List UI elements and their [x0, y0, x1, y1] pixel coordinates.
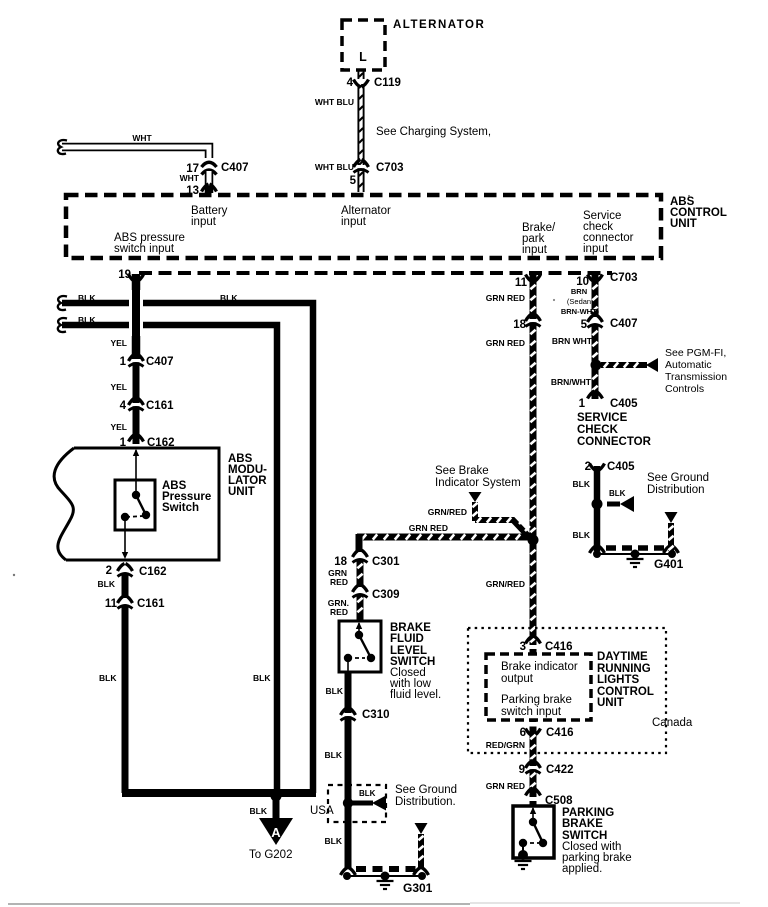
svg-text:BLK: BLK: [609, 489, 626, 498]
svg-text:A: A: [271, 825, 281, 840]
svg-text:1: 1: [579, 398, 586, 410]
svg-text:Brake indicator: Brake indicator: [501, 661, 578, 673]
svg-text:To G202: To G202: [249, 849, 292, 861]
svg-text:4: 4: [347, 77, 354, 89]
svg-text:switch input: switch input: [501, 706, 562, 718]
svg-text:See Ground: See Ground: [647, 472, 709, 484]
svg-text:Switch: Switch: [162, 502, 199, 514]
svg-text:Transmission: Transmission: [665, 371, 727, 383]
svg-text:CONNECTOR: CONNECTOR: [577, 436, 652, 448]
svg-text:2: 2: [585, 461, 591, 473]
svg-text:BLK: BLK: [78, 293, 96, 303]
svg-text:RED: RED: [330, 607, 348, 617]
svg-text:6: 6: [520, 727, 526, 739]
svg-text:BLK: BLK: [253, 673, 271, 683]
svg-text:(Sedan: (Sedan: [567, 297, 591, 306]
svg-text:11: 11: [515, 277, 528, 289]
svg-text:USA: USA: [310, 805, 334, 817]
svg-text:BLK: BLK: [220, 293, 238, 303]
svg-text:GRN RED: GRN RED: [486, 338, 525, 348]
svg-text:CHECK: CHECK: [577, 424, 619, 436]
svg-text:C119: C119: [374, 77, 401, 89]
svg-text:RED/GRN: RED/GRN: [486, 740, 525, 750]
svg-text:C703: C703: [376, 162, 404, 174]
svg-text:C301: C301: [372, 556, 400, 568]
svg-text:C161: C161: [146, 400, 174, 412]
svg-text:BLK: BLK: [573, 479, 591, 489]
svg-text:switch input: switch input: [114, 243, 175, 255]
svg-text:C161: C161: [137, 598, 165, 610]
svg-text:GRN/RED: GRN/RED: [428, 507, 467, 517]
svg-text:See Charging System,: See Charging System,: [376, 126, 491, 138]
svg-text:C407: C407: [610, 318, 638, 330]
svg-text:See Ground: See Ground: [395, 784, 457, 796]
svg-text:C162: C162: [139, 566, 167, 578]
svg-text:See PGM-FI,: See PGM-FI,: [665, 347, 726, 359]
svg-text:BLK: BLK: [325, 750, 343, 760]
svg-text:fluid level.: fluid level.: [390, 689, 441, 701]
svg-text:See Brake: See Brake: [435, 465, 489, 477]
svg-text:GRN RED: GRN RED: [409, 523, 448, 533]
svg-text:1: 1: [120, 356, 127, 368]
svg-text:GRN RED: GRN RED: [486, 293, 525, 303]
svg-text:UNIT: UNIT: [228, 486, 255, 498]
svg-text:Indicator System: Indicator System: [435, 477, 521, 489]
svg-text:3: 3: [520, 641, 526, 653]
svg-text:C309: C309: [372, 589, 400, 601]
svg-text:G401: G401: [654, 557, 684, 571]
svg-text:C422: C422: [546, 764, 574, 776]
svg-text:18: 18: [334, 556, 347, 568]
svg-text:YEL: YEL: [110, 422, 127, 432]
svg-text:L: L: [359, 50, 367, 64]
svg-text:BRN: BRN: [571, 287, 587, 296]
svg-text:output: output: [501, 673, 534, 685]
svg-text:WHT BLU: WHT BLU: [315, 97, 354, 107]
svg-text:WHT BLU: WHT BLU: [315, 162, 354, 172]
svg-text:WHT: WHT: [132, 133, 152, 143]
svg-text:18: 18: [513, 319, 526, 331]
svg-text:BLK: BLK: [98, 579, 116, 589]
svg-text:Distribution.: Distribution.: [395, 796, 456, 808]
svg-text:UNIT: UNIT: [670, 218, 697, 230]
svg-text:C310: C310: [362, 709, 390, 721]
svg-text:SERVICE: SERVICE: [577, 412, 628, 424]
svg-text:C407: C407: [146, 356, 174, 368]
svg-text:Canada: Canada: [652, 717, 693, 729]
svg-text:BRAKE: BRAKE: [562, 818, 603, 830]
svg-text:BLK: BLK: [250, 806, 268, 816]
svg-text:BRN WHT: BRN WHT: [552, 336, 593, 346]
svg-text:Distribution: Distribution: [647, 484, 705, 496]
svg-text:C405: C405: [607, 461, 635, 473]
svg-text:BRN/WHT: BRN/WHT: [551, 377, 592, 387]
svg-text:WHT: WHT: [180, 173, 200, 183]
svg-text:BLK: BLK: [573, 530, 591, 540]
svg-text:Automatic: Automatic: [665, 359, 712, 371]
svg-text:input: input: [583, 243, 609, 255]
svg-text:ALTERNATOR: ALTERNATOR: [393, 19, 485, 31]
svg-text:YEL: YEL: [110, 338, 127, 348]
svg-text:Parking brake: Parking brake: [501, 694, 572, 706]
svg-text:C416: C416: [545, 641, 573, 653]
svg-text:RED: RED: [330, 577, 348, 587]
svg-text:DAYTIME: DAYTIME: [597, 651, 648, 663]
svg-text:9: 9: [519, 764, 525, 776]
svg-text:11: 11: [105, 598, 118, 610]
svg-text:4: 4: [120, 400, 127, 412]
svg-text:applied.: applied.: [562, 863, 602, 875]
svg-text:5: 5: [581, 319, 588, 331]
svg-text:input: input: [341, 216, 367, 228]
svg-text:5: 5: [350, 175, 357, 187]
svg-text:GRN/RED: GRN/RED: [486, 579, 525, 589]
svg-text:UNIT: UNIT: [597, 697, 624, 709]
svg-text:BLK: BLK: [325, 836, 343, 846]
svg-text:input: input: [522, 244, 548, 256]
svg-text:C405: C405: [610, 398, 638, 410]
svg-text:LIGHTS: LIGHTS: [597, 674, 639, 686]
svg-text:2: 2: [106, 565, 112, 577]
svg-text:FLUID: FLUID: [390, 633, 424, 645]
svg-text:G301: G301: [403, 881, 433, 895]
svg-text:input: input: [191, 216, 217, 228]
svg-text:BLK: BLK: [99, 673, 117, 683]
svg-text:Controls: Controls: [665, 383, 704, 395]
svg-text:GRN RED: GRN RED: [486, 781, 525, 791]
svg-text:YEL: YEL: [110, 382, 127, 392]
svg-text:C416: C416: [546, 727, 574, 739]
svg-text:BLK: BLK: [359, 789, 376, 798]
svg-text:BLK: BLK: [326, 686, 344, 696]
svg-text:C703: C703: [610, 272, 638, 284]
svg-text:BLK: BLK: [78, 315, 96, 325]
svg-text:C407: C407: [221, 162, 249, 174]
